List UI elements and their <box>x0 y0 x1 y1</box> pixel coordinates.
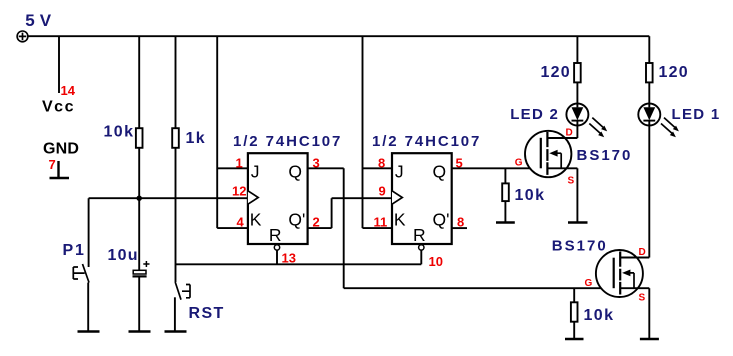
wire gate pulldown R5 <box>504 168 506 183</box>
transistor Q1 BS170 <box>525 131 577 177</box>
svg-text:S: S <box>639 293 646 304</box>
capacitor C1 10u polarized <box>133 261 150 276</box>
svg-text:LED 1: LED 1 <box>672 106 721 123</box>
svg-text:10: 10 <box>429 254 443 269</box>
wire Q'1 output <box>308 227 332 229</box>
svg-text:10k: 10k <box>104 124 135 141</box>
svg-text:10u: 10u <box>108 247 139 264</box>
wire 5V tie J2 K2 <box>362 36 364 228</box>
wire 5V to R2 <box>175 36 177 128</box>
svg-text:5 V: 5 V <box>25 11 52 30</box>
pushbutton RST <box>175 282 190 332</box>
wire R6 to ground <box>573 322 575 339</box>
svg-text:R: R <box>269 225 282 245</box>
wire 5V to R4 <box>648 36 650 63</box>
svg-text:G: G <box>585 278 593 289</box>
wire R1 to C1 <box>138 148 140 270</box>
resistor R6 10k <box>571 302 578 321</box>
svg-text:J: J <box>251 162 260 182</box>
svg-text:1: 1 <box>236 156 243 171</box>
svg-text:Q: Q <box>288 162 302 182</box>
ground below M1 source <box>568 221 588 223</box>
svg-text:10k: 10k <box>515 187 546 204</box>
svg-text:7: 7 <box>49 157 56 172</box>
wire gate pulldown R6 <box>573 288 575 302</box>
transistor Q2 BS170 <box>596 250 649 297</box>
wire J2 input <box>363 167 393 169</box>
svg-text:10k: 10k <box>584 307 615 324</box>
U1B reset bubble <box>419 245 424 250</box>
wire R4 to LED1 <box>648 82 650 103</box>
wire LED1 to M2 drain <box>648 126 650 258</box>
op-amp U1A 1/2 74HC107 flip-flop box <box>248 153 308 244</box>
LED1 <box>638 104 679 138</box>
svg-text:12: 12 <box>232 184 246 199</box>
U1A clock triangle <box>248 191 258 204</box>
ground below C1 <box>129 330 151 332</box>
svg-text:120: 120 <box>541 64 571 81</box>
svg-text:D: D <box>639 247 646 258</box>
wire Q'2 stub <box>452 227 467 229</box>
resistor R2 1k <box>172 128 179 148</box>
U1B clock triangle <box>392 191 402 204</box>
pushbutton P1 <box>73 198 89 331</box>
wire K2 input <box>363 227 393 229</box>
wire 5V tie J1 K1 <box>216 36 218 228</box>
wire top 5V rail <box>28 35 649 37</box>
svg-text:RST: RST <box>189 305 225 322</box>
svg-text:1/2 74HC107: 1/2 74HC107 <box>233 133 342 150</box>
ground below P1 <box>78 330 100 332</box>
wire LED2 to M1 drain <box>576 126 578 139</box>
svg-text:9: 9 <box>379 184 386 199</box>
svg-text:Q': Q' <box>288 209 305 229</box>
svg-text:K: K <box>394 209 406 229</box>
svg-text:K: K <box>250 209 262 229</box>
wire clock line to FF1 <box>89 197 248 199</box>
ground below R6 <box>565 338 584 340</box>
wire M1 source to ground <box>576 168 578 222</box>
ground below R5 <box>496 221 515 223</box>
svg-text:Q': Q' <box>433 209 450 229</box>
wire gate rail to M2 <box>344 287 614 289</box>
svg-text:4: 4 <box>237 215 245 230</box>
wire J1 input <box>217 167 248 169</box>
5 V supply terminal <box>17 31 28 42</box>
svg-text:Q: Q <box>433 162 447 182</box>
resistor R3 120 <box>574 63 581 82</box>
op-amp U1B 1/2 74HC107 flip-flop box <box>392 153 452 244</box>
wire K1 input <box>217 227 248 229</box>
svg-text:14: 14 <box>61 83 76 98</box>
wire U1B reset pin <box>420 250 422 264</box>
svg-text:S: S <box>568 176 575 187</box>
resistor R4 120 <box>646 63 653 82</box>
node clock junction dot <box>137 196 142 201</box>
svg-text:LED 2: LED 2 <box>510 106 559 123</box>
svg-text:J: J <box>395 162 404 182</box>
wire Vcc stub <box>58 36 60 93</box>
svg-text:8: 8 <box>378 156 385 171</box>
svg-text:13: 13 <box>282 251 296 266</box>
ground GND symbol <box>50 161 70 178</box>
svg-text:GND: GND <box>43 141 79 158</box>
resistor R1 10k <box>136 128 143 148</box>
svg-text:Vcc: Vcc <box>42 99 75 116</box>
wire M2 source to ground <box>648 288 650 339</box>
svg-text:120: 120 <box>659 64 689 81</box>
wire clock line to FF2 <box>332 197 392 199</box>
U1A reset bubble <box>274 245 279 250</box>
ground below RST <box>165 330 187 332</box>
wire Q2 output to gate M1 <box>452 167 540 169</box>
svg-text:BS170: BS170 <box>552 238 608 255</box>
wire R5 to ground <box>504 201 506 222</box>
ground below M2 source <box>640 338 659 340</box>
wire Q'1 up to clock 2 <box>331 198 333 228</box>
svg-text:11: 11 <box>374 215 388 230</box>
svg-text:8: 8 <box>457 214 464 229</box>
svg-text:P1: P1 <box>63 242 86 259</box>
svg-text:1k: 1k <box>186 130 207 147</box>
svg-text:D: D <box>566 128 573 139</box>
wire Q1 output <box>308 167 344 169</box>
wire reset rail <box>176 263 422 265</box>
LED2 <box>566 104 607 138</box>
resistor R5 10k <box>502 183 509 201</box>
wire U1A reset pin <box>276 250 278 264</box>
svg-text:R: R <box>413 225 426 245</box>
wire Q1 down to gate rail <box>343 168 345 288</box>
wire R2 to RST <box>175 148 177 282</box>
wire 5V to R1 <box>138 36 140 128</box>
svg-text:BS170: BS170 <box>577 147 633 164</box>
wire C1 to ground <box>138 276 140 331</box>
svg-text:G: G <box>515 158 523 169</box>
wire 5V to R3 <box>576 36 578 63</box>
svg-text:1/2 74HC107: 1/2 74HC107 <box>372 133 481 150</box>
wire R3 to LED2 <box>576 82 578 103</box>
